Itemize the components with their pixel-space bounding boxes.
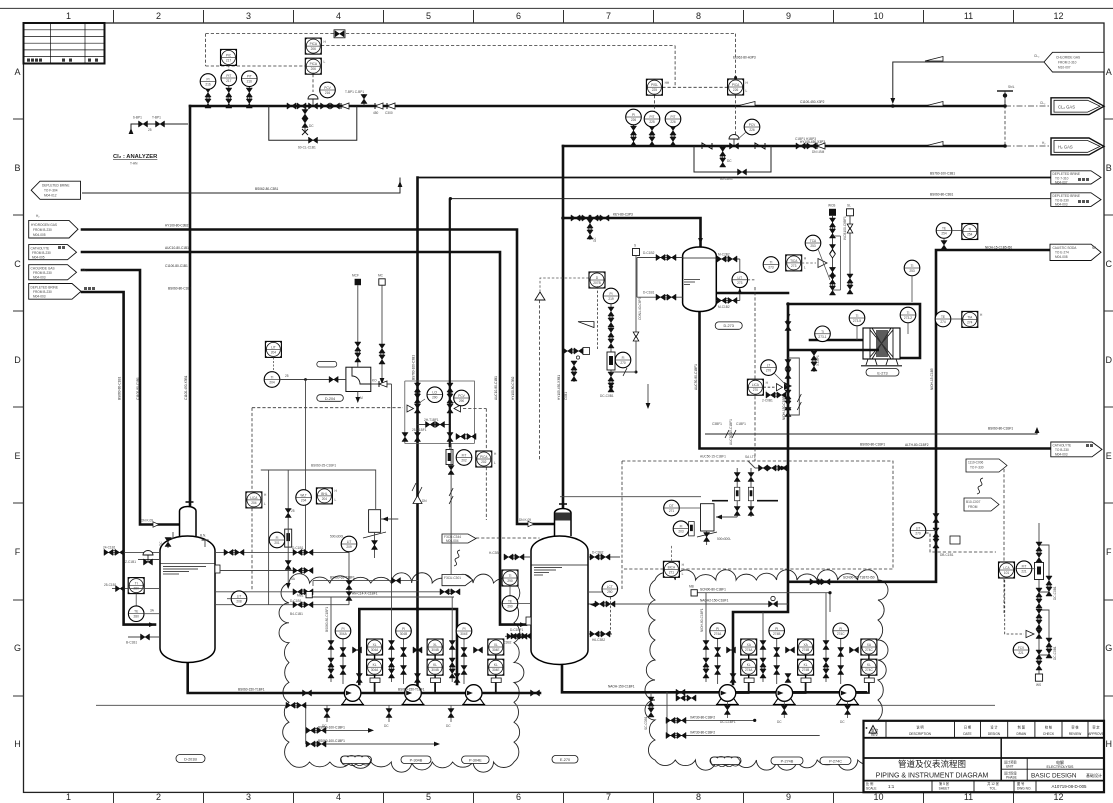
svg-text:C1100-450-X3P2: C1100-450-X3P2 (800, 100, 825, 104)
pump2 unit A status lights (736, 639, 757, 693)
svg-text:TI: TI (821, 330, 824, 334)
svg-text:273: 273 (737, 281, 743, 285)
svg-text:TE: TE (508, 600, 512, 604)
rotameter FI-202 (446, 447, 472, 465)
svg-text:LICA: LICA (250, 496, 258, 500)
pump P-304A (341, 685, 364, 705)
svg-text:5: 5 (426, 11, 431, 21)
flag depleted brine from B-230 (29, 284, 95, 300)
svg-text:LICA: LICA (752, 383, 760, 387)
rev header row (864, 721, 1105, 792)
svg-text:M-C1B2: M-C1B2 (718, 305, 730, 309)
svg-text:HY100-80-C3B2: HY100-80-C3B2 (165, 224, 189, 228)
vessel D-273 caustic degasser (683, 247, 717, 312)
svg-text:PIC: PIC (226, 53, 232, 57)
flag CL2 gas heavy (1040, 98, 1104, 115)
svg-text:PISL: PISL (651, 83, 658, 87)
svg-text:1:1: 1:1 (888, 784, 895, 789)
svg-text:NIOH-15-C1B5-I50: NIOH-15-C1B5-I50 (985, 246, 1012, 250)
svg-text:219: 219 (608, 297, 614, 301)
svg-text:216: 216 (205, 83, 211, 87)
svg-text:PI: PI (839, 627, 842, 631)
svg-text:BICA: BICA (668, 565, 676, 569)
flag H2 gas heavy (1042, 138, 1104, 155)
svg-text:F: F (15, 547, 21, 557)
svg-text:LIT: LIT (271, 345, 276, 349)
svg-text:M04-012: M04-012 (44, 194, 57, 198)
F-204 dome vent valve (159, 532, 173, 548)
instrument TCA-253 (805, 235, 830, 280)
svg-text:图 号: 图 号 (1017, 781, 1024, 786)
seal pot drain valve (704, 531, 710, 545)
svg-text:D-273: D-273 (724, 324, 734, 328)
svg-text:10: 10 (873, 11, 883, 21)
svg-text:TE: TE (941, 315, 945, 319)
svg-text:204: 204 (271, 350, 277, 354)
pump tag P-274B (771, 757, 803, 765)
svg-text:6: 6 (516, 11, 521, 21)
vent stub with valve (345, 90, 367, 106)
pump2 unit B gauges (760, 612, 795, 684)
drain header valves cloud1 (286, 702, 454, 728)
svg-text:B.N.: B.N. (200, 534, 206, 538)
svg-text:制 图: 制 图 (1018, 725, 1025, 730)
svg-text:DC: DC (777, 720, 782, 724)
instrument TI-280 (128, 578, 144, 606)
svg-text:ELECTROLYSIS: ELECTROLYSIS (1047, 765, 1074, 769)
rotameter FI-201 (269, 470, 296, 589)
thin process lines (82, 62, 1051, 434)
svg-text:PI: PI (206, 78, 209, 82)
svg-text:225: 225 (649, 120, 655, 124)
svg-text:PI: PI (402, 627, 405, 631)
svg-text:KO: KO (372, 379, 377, 383)
svg-text:设 计: 设 计 (990, 725, 998, 730)
analyzer sample line (129, 116, 188, 135)
svg-text:BS760-100-C3B1: BS760-100-C3B1 (412, 355, 416, 380)
level signal line (754, 287, 756, 461)
caustic cooler circuit (716, 293, 920, 358)
instrument LCI-290 (427, 387, 443, 403)
pump P-304C (462, 685, 485, 705)
cloud2 lower drains (667, 692, 820, 736)
svg-text:271: 271 (669, 570, 675, 574)
svg-text:M04-003: M04-003 (1055, 453, 1068, 457)
svg-text:FIT: FIT (462, 454, 467, 458)
svg-text:253: 253 (909, 269, 915, 273)
svg-text:校 核: 校 核 (1045, 725, 1053, 730)
svg-text:DT: DT (669, 504, 673, 508)
instrument LCT-290 (602, 581, 618, 634)
svg-text:B: B (14, 163, 20, 173)
svg-text:TO B-230: TO B-230 (1055, 448, 1069, 452)
svg-text:304B: 304B (431, 668, 438, 672)
svg-text:XAT30-80-C1BF2: XAT30-80-C1BF2 (690, 730, 715, 734)
svg-text:204: 204 (251, 501, 257, 505)
svg-text:304A: 304A (371, 648, 379, 652)
right metering run (1005, 523, 1057, 687)
svg-text:LT: LT (767, 364, 771, 368)
svg-text:KL: KL (373, 663, 377, 667)
svg-text:DN I-BM: DN I-BM (812, 150, 825, 154)
riser bypass stub (762, 392, 786, 403)
svg-text:CATHOLYTE: CATHOLYTE (1053, 444, 1072, 448)
svg-text:6-BP1: 6-BP1 (133, 116, 142, 120)
svg-text:HYDROGEN GAS: HYDROGEN GAS (31, 223, 57, 227)
flag caustic soda to E-274 (1050, 244, 1101, 260)
flag depleted brine to F-304 (31, 181, 80, 199)
svg-text:HY100-80-C3B2: HY100-80-C3B2 (511, 376, 515, 400)
svg-text:E: E (14, 451, 20, 461)
instrument TI-273-1 (815, 326, 831, 342)
svg-text:KL: KL (747, 663, 751, 667)
svg-text:6: 6 (516, 792, 521, 802)
svg-text:9: 9 (786, 792, 791, 802)
svg-text:12: 12 (1053, 11, 1063, 21)
svg-text:S: S (634, 244, 636, 248)
svg-text:274A: 274A (745, 648, 753, 652)
top trim line (0, 7, 1113, 9)
svg-text:PICA: PICA (310, 62, 318, 66)
svg-text:DATE: DATE (963, 732, 971, 736)
temper water control train (829, 216, 847, 295)
instrument FIT-221 (1016, 561, 1035, 577)
svg-text:TI: TI (907, 311, 910, 315)
nitrogen supply S (611, 244, 642, 377)
rotated line tags on risers (118, 355, 935, 420)
svg-text:24-C1B1: 24-C1B1 (103, 546, 116, 550)
valve on suction at cloud1 edge (303, 690, 312, 696)
svg-text:BS060-150-T1BF1: BS060-150-T1BF1 (398, 687, 425, 691)
svg-text:TI: TI (135, 582, 138, 586)
F-204 right bridle lines (215, 552, 460, 616)
flag chloride gas from 2-310 (1034, 52, 1104, 72)
element TE-254 (936, 223, 962, 250)
svg-text:KL: KL (433, 663, 437, 667)
svg-text:D-C1B1: D-C1B1 (292, 546, 304, 550)
purge line down from panel (448, 443, 454, 574)
svg-text:204: 204 (322, 497, 328, 501)
svg-text:DN K.09: DN K.09 (141, 519, 153, 523)
svg-text:FROM 2-310: FROM 2-310 (1058, 61, 1077, 65)
cloud2 internal line (694, 593, 830, 612)
svg-text:说 明: 说 明 (916, 725, 923, 730)
svg-text:C1100-80-C1B1: C1100-80-C1B1 (136, 377, 140, 400)
level line to seal pot (560, 496, 701, 498)
svg-text:PICA: PICA (732, 83, 740, 87)
pump unit C gauges (449, 597, 482, 684)
grid ticks top (114, 10, 1014, 23)
svg-text:Cl₂ : ANALYZER: Cl₂ : ANALYZER (113, 154, 158, 160)
cloud1 minimum flow line valves (510, 628, 531, 639)
svg-text:CL₂ GAS: CL₂ GAS (1058, 104, 1075, 109)
riser from F-205 hydrogen vessel (562, 146, 565, 510)
analyzer vent line down (391, 384, 393, 597)
svg-text:1: 1 (66, 792, 71, 802)
svg-text:BS060-25-C1BF1: BS060-25-C1BF1 (311, 464, 336, 468)
brine return riser (705, 428, 1037, 434)
svg-text:25-C1BF1: 25-C1BF1 (412, 428, 427, 432)
svg-text:304B: 304B (400, 632, 407, 636)
chlorine gas feed from B-230 (82, 270, 179, 525)
svg-text:SCN00-C5-T1BT2-I50: SCN00-C5-T1BT2-I50 (843, 576, 875, 580)
svg-text:60-CL-C1B1: 60-CL-C1B1 (298, 146, 316, 150)
svg-text:CHECK: CHECK (1043, 732, 1055, 736)
standpipe down to vessel nozzle (305, 380, 307, 553)
analyzer tap UA-250 (728, 76, 749, 95)
svg-text:270: 270 (915, 532, 921, 536)
svg-text:207B: 207B (593, 281, 600, 285)
svg-text:D-C3B2: D-C3B2 (592, 551, 604, 555)
svg-text:304A: 304A (371, 668, 379, 672)
svg-text:DC: DC (309, 124, 314, 128)
svg-text:MB: MB (689, 585, 694, 589)
svg-text:FCV: FCV (1018, 646, 1025, 650)
instrument PIT-217 (221, 70, 237, 86)
svg-text:P-304E: P-304E (469, 759, 482, 763)
hydrogen gas header (563, 145, 1005, 148)
svg-text:SCALE: SCALE (866, 787, 876, 791)
drain stack below header (302, 106, 314, 135)
depleted brine feed from B-230 (82, 292, 155, 625)
svg-text:201: 201 (274, 541, 280, 545)
F-204 dome nozzle stub (200, 534, 209, 548)
svg-text:DB-C1B1: DB-C1B1 (940, 553, 954, 557)
instrument D-207 square (589, 272, 605, 288)
svg-text:206: 206 (311, 67, 317, 71)
instrument LIT-204 (265, 341, 281, 371)
svg-text:M04-003: M04-003 (33, 275, 46, 279)
drain stack off exchanger inlet (811, 350, 820, 372)
pump unit A gauges (325, 597, 362, 684)
instrument TI-204 (264, 372, 280, 388)
svg-text:10: 10 (873, 792, 883, 802)
instrument LICA-204 (246, 492, 267, 508)
svg-text:LIT: LIT (237, 595, 242, 599)
svg-text:DC: DC (593, 237, 597, 242)
pump tag P-274C (820, 757, 851, 765)
element TE-274 (935, 311, 962, 327)
riser from F-204 chlorine vessel (189, 106, 192, 507)
svg-text:202: 202 (481, 460, 487, 464)
svg-text:LCI: LCI (432, 391, 437, 395)
recirc isolation big valve (595, 596, 778, 607)
svg-text:L: L (804, 266, 806, 270)
svg-text:TCA: TCA (810, 239, 817, 243)
svg-text:274B: 274B (802, 668, 809, 672)
svg-text:L: L (335, 498, 337, 502)
svg-text:217: 217 (226, 79, 232, 83)
pump suction arrows (346, 691, 352, 696)
pump tag P-304A clouded (341, 755, 372, 765)
svg-text:BS060-80-C1BF1: BS060-80-C1BF1 (860, 443, 885, 447)
flow arrows on mains (890, 98, 895, 104)
svg-text:AUC10-80-C1B1: AUC10-80-C1B1 (165, 246, 189, 250)
pump2 unit C gauges (823, 593, 859, 684)
svg-text:BASIC DESIGN: BASIC DESIGN (1031, 773, 1077, 780)
flame arrestors hydrogen (702, 143, 712, 149)
svg-text:版 次: 版 次 (871, 728, 879, 733)
recirc arrow into F-205 (590, 602, 596, 607)
pump suction header from F-205 (562, 655, 866, 692)
svg-text:7: 7 (606, 792, 611, 802)
instrument PI-216 (200, 74, 216, 90)
equipment tag D-204 (317, 395, 344, 402)
svg-text:CL₂: CL₂ (82, 268, 88, 272)
svg-text:基础设计: 基础设计 (1086, 772, 1102, 778)
instrument FI-270 (615, 352, 631, 368)
line blinds (375, 103, 383, 109)
control valve PCV-226 (729, 135, 739, 150)
svg-text:XL: XL (433, 643, 437, 647)
svg-text:290: 290 (432, 396, 438, 400)
svg-text:DC-C1BF1: DC-C1BF1 (720, 720, 736, 724)
pump tag P-274A clouded (710, 756, 741, 766)
svg-text:LIT: LIT (347, 540, 352, 544)
pump P-274B (773, 685, 796, 705)
svg-text:FROM B-230: FROM B-230 (33, 228, 52, 232)
svg-text:SL: SL (847, 204, 851, 208)
svg-text:271: 271 (669, 509, 675, 513)
svg-text:D: D (14, 355, 21, 365)
catholyte feed from B-230 (82, 252, 526, 625)
svg-text:TO F-330: TO F-330 (970, 466, 984, 470)
instrument DT-271 (664, 500, 701, 516)
rev triangle mark (869, 726, 877, 734)
svg-text:208: 208 (236, 600, 242, 604)
svg-text:B4-C1B1: B4-C1B1 (290, 612, 303, 616)
pressure control signal loop top (206, 34, 1005, 146)
svg-text:B: B (1106, 163, 1112, 173)
svg-text:审 定: 审 定 (1092, 725, 1100, 730)
controller PICA-206 high (305, 38, 326, 54)
svg-text:225: 225 (652, 88, 658, 92)
controller PISL-225 (646, 79, 670, 95)
svg-text:254: 254 (941, 232, 947, 236)
svg-text:9: 9 (786, 11, 791, 21)
pump P-274C (836, 685, 859, 705)
F-204 right bridle upper (215, 546, 349, 556)
svg-text:XL: XL (373, 643, 377, 647)
svg-text:WCB: WCB (828, 204, 835, 208)
svg-text:DWG NO.: DWG NO. (1017, 787, 1031, 791)
purge assembly (563, 286, 597, 400)
svg-text:MCF: MCF (352, 274, 359, 278)
mixing tee box D-204 (346, 367, 371, 391)
svg-text:KL: KL (867, 663, 871, 667)
svg-text:3: 3 (246, 11, 251, 21)
svg-text:BS060-65-T1BF1: BS060-65-T1BF1 (330, 575, 355, 579)
utility station open square MC (378, 274, 385, 385)
svg-text:C0B1: C0B1 (564, 392, 568, 400)
pump P-304B (402, 685, 425, 705)
svg-text:253: 253 (810, 244, 816, 248)
controller TICA-273 (786, 255, 827, 271)
svg-text:BS060-100-C1BF1: BS060-100-C1BF1 (318, 739, 345, 743)
svg-text:C1100-80-C1B1: C1100-80-C1B1 (165, 264, 188, 268)
svg-text:TO E-274: TO E-274 (1055, 251, 1069, 255)
instrument TIA-274 (962, 311, 983, 327)
svg-text:CHOLRIDE GAS: CHOLRIDE GAS (31, 267, 55, 271)
svg-text:FROM B-230: FROM B-230 (33, 290, 52, 294)
F-204 sample nozzle (104, 583, 160, 592)
svg-text:BS062-80-C3B1: BS062-80-C3B1 (255, 187, 278, 191)
svg-text:L: L (746, 89, 748, 93)
secondary gray lines (96, 470, 995, 744)
instrument LIT-205 (341, 536, 357, 552)
insulation triangle on downcomer (413, 496, 427, 504)
svg-text:202: 202 (461, 459, 467, 463)
vent signal line (539, 300, 541, 460)
svg-text:L: L (682, 572, 684, 576)
downcomer to pump cloud P-304 (416, 178, 419, 687)
F-205 lower left nozzle (500, 633, 531, 644)
caustic soda discharge to E-274 (789, 250, 1051, 582)
equipment tag D-273 (715, 322, 742, 329)
svg-text:226: 226 (733, 88, 739, 92)
svg-text:DEPLETED BRINE: DEPLETED BRINE (42, 184, 69, 188)
chloride gas from 2-310 (893, 62, 1044, 102)
hydrogen gas feed from B-230 (82, 230, 555, 525)
hydrogen header bypass (694, 146, 771, 181)
F-205 left nozzle line (489, 551, 531, 560)
pump unit B status lights (421, 639, 443, 693)
flag chlorine gas from B-230 (29, 265, 88, 280)
svg-text:PIT: PIT (671, 115, 676, 119)
cloud2 suction drain (644, 692, 654, 730)
svg-text:DC-C0B1: DC-C0B1 (1053, 646, 1057, 660)
svg-text:MC: MC (378, 274, 384, 278)
pump unit A status lights (361, 639, 383, 693)
flag F3CU mid lower (442, 574, 473, 585)
riser relief loop (788, 358, 801, 415)
svg-text:UNIT: UNIT (1006, 765, 1013, 769)
svg-text:204: 204 (301, 499, 307, 503)
svg-text:A10719-08-D-005: A10719-08-D-005 (1052, 784, 1087, 789)
svg-text:L: L (494, 461, 496, 465)
svg-text:216: 216 (325, 91, 331, 95)
mixer drain stub (355, 392, 363, 404)
svg-text:BS060-80-C1BF1: BS060-80-C1BF1 (988, 427, 1013, 431)
equipment tag E-270 (552, 756, 578, 764)
svg-text:PICA: PICA (310, 42, 318, 46)
svg-text:1110-C006: 1110-C006 (968, 461, 984, 465)
svg-text:4: 4 (336, 792, 341, 802)
svg-text:Z-C1B1: Z-C1B1 (125, 560, 136, 564)
flag from F-330 lower (964, 498, 999, 511)
svg-text:BHL: BHL (321, 492, 327, 496)
cloud 2 pump feed (733, 306, 788, 684)
svg-text:1: 1 (66, 11, 71, 21)
svg-text:T-BP1 C-BP1: T-BP1 C-BP1 (345, 90, 364, 94)
svg-text:FI: FI (680, 525, 683, 529)
svg-text:M04-004: M04-004 (446, 539, 459, 543)
line TI-204 to mixer (280, 374, 346, 383)
svg-text:3-C8P1: 3-C8P1 (816, 355, 820, 366)
svg-text:FI: FI (276, 536, 279, 540)
svg-text:B-C1B1: B-C1B1 (126, 641, 137, 645)
svg-text:304E: 304E (492, 648, 499, 652)
pump tag P-304B (401, 756, 431, 764)
svg-text:TIA: TIA (967, 315, 973, 319)
svg-text:P-274B: P-274B (781, 760, 794, 764)
flag catholyte from B-230 (29, 245, 77, 260)
grid numbers top (66, 11, 1064, 21)
bottom row (866, 781, 1087, 791)
svg-text:25: 25 (285, 374, 289, 378)
svg-text:HH: HH (665, 81, 670, 85)
controller LICA-270 (747, 379, 782, 395)
